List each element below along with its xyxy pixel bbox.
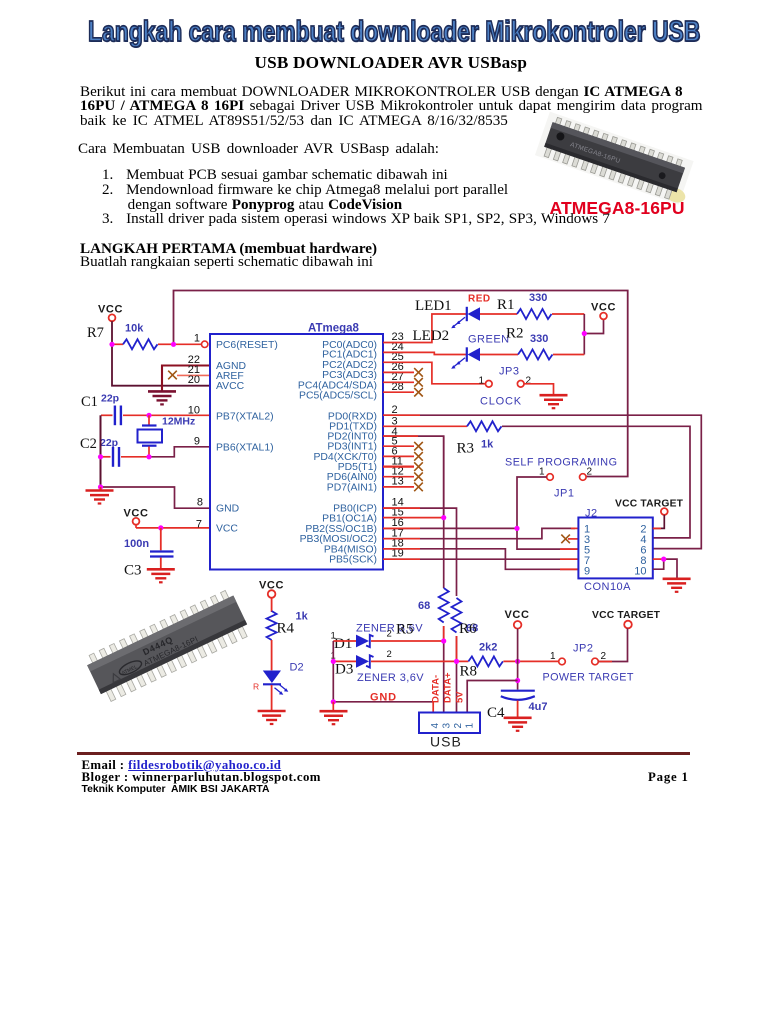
svg-text:3: 3: [442, 723, 453, 729]
svg-text:DATA+: DATA+: [443, 672, 454, 703]
wire PD0 net (pin2 to CON pin6): [383, 415, 701, 548]
wire PB3 net to CON pin1: [383, 528, 575, 538]
crystal X1 12MHz: [138, 415, 196, 457]
wire JP1 pad1 to CON pin5: [517, 477, 578, 549]
no-connect X CON pin3: [561, 535, 578, 544]
svg-text:1k: 1k: [481, 439, 494, 451]
no-connect X pin 13: [383, 483, 423, 492]
svg-text:1: 1: [539, 467, 545, 478]
svg-text:PB7(XTAL2): PB7(XTAL2): [216, 411, 274, 422]
wire XTAL1: [149, 447, 210, 457]
capacitor C2: [80, 436, 149, 467]
power symbol VCC (LED): [591, 302, 616, 320]
no-connect X pin 12: [383, 472, 423, 481]
IC left pin numbers: [188, 333, 203, 531]
svg-text:2: 2: [387, 649, 392, 660]
svg-text:12MHz: 12MHz: [162, 416, 195, 428]
svg-text:DATA-: DATA-: [431, 675, 442, 703]
svg-text:8: 8: [197, 497, 203, 509]
svg-text:PC6(RESET): PC6(RESET): [216, 340, 278, 351]
diode D3 zener: [331, 649, 425, 684]
svg-text:2: 2: [392, 404, 398, 416]
svg-text:C3: C3: [124, 563, 142, 579]
resistor R7: [87, 323, 174, 350]
resistor R3: [457, 421, 502, 456]
wire D1 row: [333, 640, 443, 642]
ground (CON10A): [663, 579, 691, 592]
svg-text:9: 9: [584, 565, 590, 577]
svg-text:PD7(AIN1): PD7(AIN1): [327, 482, 377, 493]
svg-text:4: 4: [430, 723, 441, 729]
svg-text:VCC: VCC: [505, 609, 530, 621]
pin 1 open circle: [202, 341, 208, 347]
power symbol VCC (R4): [259, 580, 284, 613]
wire LED rail to VCC: [583, 314, 585, 355]
wire PB0 net down to R6: [383, 508, 457, 596]
wire AREF stub: [177, 374, 210, 376]
no-connect X pin 5: [383, 442, 423, 451]
svg-text:C4: C4: [487, 705, 505, 721]
wire PB4 net to CON pin9: [383, 549, 578, 570]
wire pin24 to LED2: [383, 352, 466, 354]
svg-text:CON10A: CON10A: [584, 581, 631, 593]
power symbol VCC (mid): [505, 609, 530, 690]
wire XTAL2: [149, 414, 210, 416]
capacitor C3: [124, 528, 174, 579]
no-connect X pin 26: [383, 368, 423, 377]
node junction CON pin8: [661, 557, 666, 562]
svg-text:JP1: JP1: [554, 488, 574, 500]
svg-text:VCC: VCC: [591, 302, 616, 314]
chip photo caption: [550, 198, 685, 219]
svg-text:10: 10: [634, 565, 646, 577]
svg-text:22p: 22p: [100, 437, 118, 449]
resistor R4: [267, 611, 309, 671]
svg-text:VCC TARGET: VCC TARGET: [615, 499, 684, 510]
svg-text:VCC: VCC: [98, 304, 123, 316]
svg-text:1: 1: [550, 651, 556, 662]
svg-text:R1: R1: [497, 297, 515, 313]
no-connect X pin 11: [383, 462, 423, 471]
svg-text:9: 9: [194, 435, 200, 447]
svg-text:1: 1: [194, 333, 200, 345]
svg-text:7: 7: [196, 519, 202, 531]
node junction PB1: [441, 515, 446, 520]
node junction crystal/C2: [146, 454, 151, 459]
wire PB5 net to CON pin7: [383, 558, 578, 560]
resistor R5: [418, 588, 449, 623]
footer text: [82, 758, 282, 773]
svg-text:2: 2: [526, 376, 532, 387]
jumper JP2 power target: [543, 643, 634, 684]
paragraph 1: [80, 85, 740, 129]
ground (D2): [258, 711, 286, 724]
wire USB pin4 to GND: [432, 702, 434, 713]
IC right pin names: [298, 340, 377, 566]
no-connect X pin 21: [168, 371, 177, 380]
svg-text:POWER TARGET: POWER TARGET: [543, 672, 634, 684]
svg-text:VCC TARGET: VCC TARGET: [592, 610, 661, 621]
power symbol VCC TARGET (JP2): [592, 610, 661, 662]
svg-text:LED1: LED1: [415, 298, 452, 314]
svg-text:22p: 22p: [101, 393, 119, 405]
LED D(LED2): [413, 328, 510, 369]
svg-text:C1: C1: [81, 394, 98, 410]
connector USB: [419, 713, 480, 750]
wire R5 bottom to USB pin3: [443, 626, 445, 713]
resistor R1: [480, 292, 584, 319]
no-connect X pin 6: [383, 452, 423, 461]
wire PB1 net down to R5: [383, 436, 444, 588]
svg-text:GREEN: GREEN: [468, 334, 510, 346]
svg-text:PB6(XTAL1): PB6(XTAL1): [216, 442, 274, 453]
node junction rail/gnd: [98, 484, 103, 489]
wire VCC rail to AVCC: [112, 344, 210, 385]
no-connect X pin 28: [383, 388, 423, 397]
svg-text:R6: R6: [459, 621, 477, 637]
svg-text:1: 1: [479, 376, 485, 387]
power symbol VCC (pin 7): [124, 508, 149, 528]
svg-text:AVCC: AVCC: [216, 381, 245, 392]
wire CON pin8/pin10 to ground: [653, 559, 677, 578]
ground (zener): [320, 702, 348, 724]
svg-text:PB5(SCK): PB5(SCK): [329, 555, 377, 566]
node junction rail/C2: [98, 454, 103, 459]
section heading: [80, 241, 377, 258]
svg-text:D2: D2: [290, 662, 304, 674]
svg-text:1k: 1k: [296, 611, 309, 623]
ground (C4): [504, 718, 532, 731]
svg-text:1: 1: [465, 723, 476, 729]
resistor R8: [460, 642, 559, 680]
ground (crystal rail): [86, 487, 114, 504]
svg-text:2k2: 2k2: [479, 642, 497, 654]
svg-text:R: R: [253, 682, 259, 692]
svg-text:LED2: LED2: [413, 328, 450, 344]
ground (JP3): [540, 395, 568, 408]
svg-text:USB: USB: [430, 734, 462, 750]
node junction R8/VCC: [515, 659, 520, 664]
node junction LED rail: [582, 331, 587, 336]
node junction R7/VCC: [109, 342, 114, 347]
wire R3 to CON pin4: [502, 426, 690, 538]
capacitor C1: [81, 393, 149, 426]
svg-text:JP2: JP2: [573, 643, 593, 655]
svg-text:2: 2: [453, 723, 464, 729]
wire PB2 net to JP1: [383, 527, 517, 529]
svg-text:R8: R8: [460, 664, 478, 680]
ground (AGND): [148, 391, 176, 404]
node junction JP1/PB2: [514, 526, 519, 531]
power symbol VCC TARGET (CON pin2): [615, 499, 684, 529]
jumper JP1 self programming: [505, 457, 618, 500]
svg-text:ZENER 3,6V: ZENER 3,6V: [357, 672, 424, 684]
svg-text:D3: D3: [335, 662, 353, 678]
WordArt page banner: [88, 16, 700, 49]
svg-text:JP3: JP3: [499, 366, 519, 378]
numbered list: [102, 168, 610, 227]
node junction D3 anode: [331, 659, 336, 664]
wire D1/D3 anode rail to GND: [333, 641, 433, 702]
paragraph 2: [78, 141, 439, 158]
svg-text:D1: D1: [334, 636, 352, 652]
svg-text:68: 68: [418, 600, 430, 612]
svg-text:10: 10: [188, 404, 200, 416]
svg-text:SELF PROGRAMING: SELF PROGRAMING: [505, 457, 618, 469]
svg-text:330: 330: [529, 292, 547, 304]
svg-text:R5: R5: [396, 622, 414, 638]
svg-text:RED: RED: [468, 294, 491, 305]
svg-text:R3: R3: [457, 441, 475, 457]
svg-text:2: 2: [387, 629, 392, 640]
svg-text:20: 20: [188, 374, 200, 386]
svg-text:4u7: 4u7: [529, 701, 548, 713]
svg-text:PC5(ADC5/SCL): PC5(ADC5/SCL): [299, 390, 377, 401]
svg-text:R4: R4: [277, 621, 295, 637]
node junction gnd row: [331, 699, 336, 704]
svg-text:1: 1: [331, 631, 336, 642]
svg-text:GND: GND: [216, 504, 239, 515]
diode D1 zener: [331, 622, 424, 653]
svg-text:5V: 5V: [455, 691, 466, 703]
wire PD1 net to R3: [383, 425, 467, 427]
no-connect X pin 27: [383, 378, 423, 387]
resistor R6: [452, 598, 479, 637]
footer rule: [77, 752, 690, 755]
node junction reset: [171, 342, 176, 347]
connector J2 CON10A: [578, 508, 652, 594]
node junction D3/R6: [454, 659, 459, 664]
photo: ATMEGA8-16PU chip (top right): [535, 112, 697, 206]
IC right pin numbers: [392, 331, 404, 560]
node junction VCC/5V: [515, 678, 520, 683]
wire AGND: [162, 366, 210, 392]
wire R6 bottom to USB pin2: [456, 636, 458, 713]
svg-text:100n: 100n: [124, 538, 149, 550]
node junction D1/R5: [441, 638, 446, 643]
wire pin25 to JP3: [383, 362, 485, 384]
photo: ATMEGA8-16PI chip (bottom left): [84, 588, 252, 704]
svg-text:10k: 10k: [125, 323, 144, 335]
wire pin23 to LED1: [383, 314, 466, 343]
op-amp?? no : IC U1 ATmega8 box: [210, 323, 383, 570]
svg-text:ATmega8: ATmega8: [308, 323, 360, 335]
jumper JP3: [479, 366, 532, 408]
LED D(LED1): [415, 294, 491, 329]
LED D2: [253, 662, 304, 711]
wire reset stub to pin 1: [174, 343, 202, 345]
wire D3 row to R8: [333, 660, 468, 662]
wire reset net top border: [174, 291, 628, 477]
wire 5V to USB pin1: [467, 681, 517, 713]
svg-text:R2: R2: [506, 326, 524, 342]
node junction C3: [158, 525, 163, 530]
wire rail to GND pin 8: [101, 487, 211, 508]
svg-text:330: 330: [530, 333, 548, 345]
wire VCC to pin 7: [136, 527, 210, 529]
node junction C1/crystal: [146, 413, 151, 418]
ground (C3): [147, 569, 175, 582]
svg-text:PC3(ADC3): PC3(ADC3): [322, 370, 377, 381]
wire PD2 net down: [383, 436, 444, 517]
power symbol VCC (top left): [98, 304, 123, 345]
svg-text:2: 2: [587, 467, 593, 478]
Document title: [255, 53, 528, 73]
svg-text:R7: R7: [87, 325, 104, 341]
svg-text:GND: GND: [370, 692, 397, 704]
IC left pin names: [216, 340, 278, 535]
svg-text:PB4(MISO): PB4(MISO): [324, 544, 377, 555]
svg-text:VCC: VCC: [216, 523, 238, 534]
svg-text:2: 2: [601, 651, 607, 662]
capacitor C4: [487, 691, 547, 721]
wire left rail: [100, 415, 102, 487]
resistor R2: [480, 326, 584, 360]
wire JP3 pad2 to ground: [524, 384, 554, 395]
svg-text:CLOCK: CLOCK: [480, 396, 522, 408]
svg-text:C2: C2: [80, 436, 97, 452]
